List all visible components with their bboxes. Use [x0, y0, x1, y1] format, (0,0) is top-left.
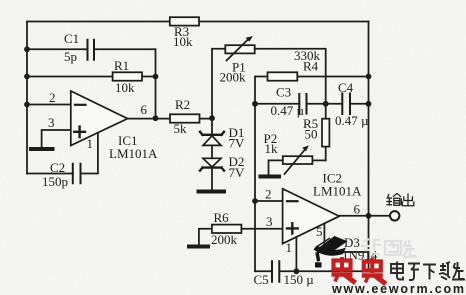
svg-text:C4: C4 — [338, 80, 354, 95]
svg-text:R2: R2 — [175, 97, 190, 112]
svg-text:6: 6 — [354, 202, 361, 217]
watermark text dianzi xiazaizhan glyphs — [391, 262, 465, 281]
ground IC1 pin3 — [31, 147, 53, 151]
label pin3 IC2 — [266, 214, 273, 229]
svg-text:10k: 10k — [115, 80, 135, 95]
resistor R5 vertical — [322, 104, 329, 161]
op-amp U2 IC2 triangle — [283, 189, 340, 244]
label D3 value 1N914 — [342, 248, 378, 263]
wire mid vertical x155 — [155, 49, 157, 118]
svg-text:C5: C5 — [254, 272, 269, 287]
wire P1 right lead — [255, 49, 326, 104]
wire IC1 pin3 — [42, 130, 71, 148]
label D2 — [229, 154, 245, 169]
capacitor C2 — [73, 164, 81, 184]
label pin6 IC2 — [354, 202, 361, 217]
diode D3 — [324, 251, 368, 253]
wire top rail — [27, 21, 369, 23]
svg-text:6: 6 — [141, 102, 148, 117]
wire IC2 pin2 — [255, 200, 282, 202]
ground P2 — [261, 175, 280, 179]
watermark graduation cap logo — [314, 236, 348, 268]
label P2 — [264, 131, 278, 146]
label pin5 IC2 — [316, 224, 323, 239]
node output junction — [366, 213, 372, 219]
label C1 — [64, 31, 79, 46]
svg-text:10k: 10k — [173, 34, 193, 49]
watermark faint text — [361, 239, 417, 257]
label C2 — [50, 160, 65, 175]
label IC1 LM101A — [109, 146, 158, 161]
label R3 value 10k — [173, 34, 193, 49]
wire IC2 pin6 output — [339, 215, 390, 217]
wire P2 left lead — [269, 160, 283, 175]
potentiometer P2 — [283, 156, 313, 164]
label P1 — [232, 60, 246, 75]
label C1 value 5p — [64, 49, 77, 64]
node IC1 pin2 junction — [24, 102, 30, 108]
node output label 输出 glyphs — [386, 193, 414, 205]
label R2 — [175, 97, 190, 112]
svg-text:2: 2 — [265, 187, 272, 202]
label R1 — [114, 58, 129, 73]
svg-text:R6: R6 — [214, 210, 230, 225]
potentiometer P1 arrow — [227, 36, 253, 60]
svg-text:2: 2 — [49, 90, 56, 105]
watermark url text — [331, 282, 466, 295]
svg-text:1: 1 — [87, 136, 94, 151]
op-amp IC2 minus sign — [287, 200, 298, 202]
svg-text:150 µ: 150 µ — [284, 272, 315, 287]
label C5 — [254, 272, 269, 287]
wire IC2 pin1 stub — [295, 237, 297, 271]
capacitor C1 — [88, 40, 95, 60]
svg-text:R1: R1 — [114, 58, 129, 73]
capacitor C5 — [272, 261, 279, 282]
wire C2 branch — [27, 134, 98, 174]
wire node vertical x255 — [254, 77, 256, 272]
output terminal circle — [390, 211, 399, 220]
op-amp IC1 plus sign — [74, 127, 85, 137]
wire R1 branch — [27, 76, 156, 78]
node C1 left junction — [24, 46, 30, 52]
label D3 — [344, 235, 360, 250]
resistor R6 — [212, 225, 242, 233]
label IC2 LM101A — [313, 184, 362, 199]
svg-text:0.47 µ: 0.47 µ — [335, 113, 369, 128]
label P2 value 1k — [265, 141, 279, 156]
wire IC1 pin2 — [27, 104, 71, 106]
diode D3 anode stroke — [316, 238, 331, 248]
wire D2 to ground — [211, 145, 213, 190]
capacitor C4 — [342, 94, 350, 115]
potentiometer P2 arrow — [285, 145, 309, 174]
node C3 left junction — [252, 101, 258, 107]
label R6 value 200k — [211, 232, 238, 247]
label R4 — [303, 59, 319, 74]
label C3 — [276, 85, 291, 100]
label D2 value 7V — [229, 165, 246, 180]
wire left vertical rail — [26, 22, 28, 174]
ground D2 — [199, 190, 225, 194]
label D1 value 7V — [229, 136, 246, 151]
node R2 right junction — [209, 115, 215, 121]
resistor R4 — [268, 72, 298, 80]
svg-text:5k: 5k — [174, 121, 188, 136]
label pin3 IC1 — [48, 115, 55, 130]
wire C3 C4 branch — [255, 103, 369, 105]
label pin1 IC1 — [87, 136, 94, 151]
label pin1 IC2 — [286, 240, 293, 255]
label R3 — [174, 24, 189, 39]
label C2 value 150p — [42, 174, 68, 189]
svg-text:C3: C3 — [276, 85, 291, 100]
node IC2 pin2 junction — [252, 198, 258, 204]
svg-text:200k: 200k — [211, 232, 238, 247]
node C4 right junction — [366, 101, 372, 107]
svg-text:C1: C1 — [64, 31, 79, 46]
label R1 value 10k — [115, 80, 135, 95]
label IC2 — [323, 171, 343, 186]
svg-text:0.47 µ: 0.47 µ — [271, 103, 305, 118]
node R1 right junction — [153, 74, 159, 80]
label C5 value 150u — [284, 272, 315, 287]
op-amp IC2 plus sign — [287, 223, 298, 233]
svg-text:R4: R4 — [303, 59, 319, 74]
svg-text:7V: 7V — [229, 136, 246, 151]
wire R5 to P2 — [312, 159, 325, 161]
svg-text:www.eeworm.com: www.eeworm.com — [331, 282, 466, 295]
label C4 value 0.47u — [335, 113, 369, 128]
label IC1 — [118, 133, 138, 148]
svg-text:5p: 5p — [64, 49, 77, 64]
label D1 — [229, 125, 245, 140]
wire IC1 pin6 output — [128, 118, 213, 120]
node R4 right junction — [366, 74, 372, 80]
svg-text:7V: 7V — [229, 165, 246, 180]
label R5 — [303, 116, 318, 131]
label R2 value 5k — [174, 121, 188, 136]
ground R6 — [189, 245, 208, 249]
label R5 value 50 — [305, 127, 318, 142]
svg-text:1k: 1k — [265, 141, 279, 156]
wire right vertical rail — [368, 22, 370, 272]
watermark red chongchong characters — [332, 257, 386, 284]
label pin2 IC2 — [265, 187, 272, 202]
op-amp U1 IC1 triangle — [71, 91, 128, 146]
resistor R1 — [113, 72, 142, 80]
node pin6 mid junction — [153, 115, 159, 121]
wire IC2 pin5 stub — [323, 223, 325, 252]
capacitor C3 — [299, 94, 306, 114]
svg-text:LM101A: LM101A — [109, 146, 158, 161]
svg-text:1: 1 — [286, 240, 293, 255]
svg-text:150p: 150p — [42, 174, 68, 189]
label R6 — [214, 210, 230, 225]
node C5 pin1 junction — [294, 268, 300, 274]
resistor R3 — [170, 17, 199, 25]
diode D1 zener — [200, 132, 224, 146]
potentiometer P1 — [225, 45, 254, 53]
label C4 — [338, 80, 354, 95]
svg-text:LM101A: LM101A — [313, 184, 362, 199]
node R1 left junction — [24, 74, 30, 80]
wire R6 branch IC2 pin3 — [199, 229, 282, 245]
wire P1 left lead — [212, 49, 225, 134]
svg-text:3: 3 — [266, 214, 273, 229]
label pin2 IC1 — [49, 90, 56, 105]
svg-text:200k: 200k — [220, 70, 247, 85]
op-amp IC1 minus sign — [75, 104, 86, 106]
label C3 value 0.47u — [271, 103, 305, 118]
svg-text:5: 5 — [316, 224, 323, 239]
svg-text:50: 50 — [305, 127, 318, 142]
node R5 top junction — [323, 101, 329, 107]
wire C5 branch — [255, 270, 369, 272]
label P1 value 200k — [220, 70, 247, 85]
wire R4 branch — [255, 76, 369, 78]
wire C1 branch — [27, 48, 156, 50]
svg-text:C2: C2 — [50, 160, 65, 175]
label R4 value 330k — [294, 48, 321, 63]
resistor R2 — [170, 114, 200, 122]
diode D2 zener — [200, 158, 224, 170]
label pin6 IC1 — [141, 102, 148, 117]
svg-text:3: 3 — [48, 115, 55, 130]
